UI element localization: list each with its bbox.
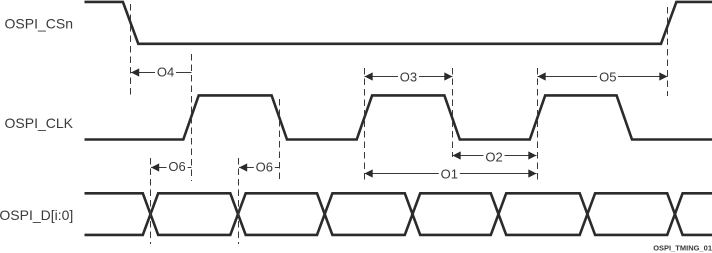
svg-text:O4: O4 (157, 65, 174, 80)
svg-text:O2: O2 (485, 149, 502, 164)
svg-text:O6: O6 (256, 160, 273, 175)
svg-text:OSPI_CLK: OSPI_CLK (5, 115, 74, 131)
svg-text:O3: O3 (400, 70, 417, 85)
svg-text:OSPI_TMING_01: OSPI_TMING_01 (653, 244, 712, 253)
svg-text:OSPI_D[i:0]: OSPI_D[i:0] (0, 207, 73, 223)
svg-text:O5: O5 (599, 70, 616, 85)
svg-text:O6: O6 (168, 159, 185, 174)
svg-text:O1: O1 (441, 167, 458, 182)
svg-text:OSPI_CSn: OSPI_CSn (5, 16, 73, 32)
